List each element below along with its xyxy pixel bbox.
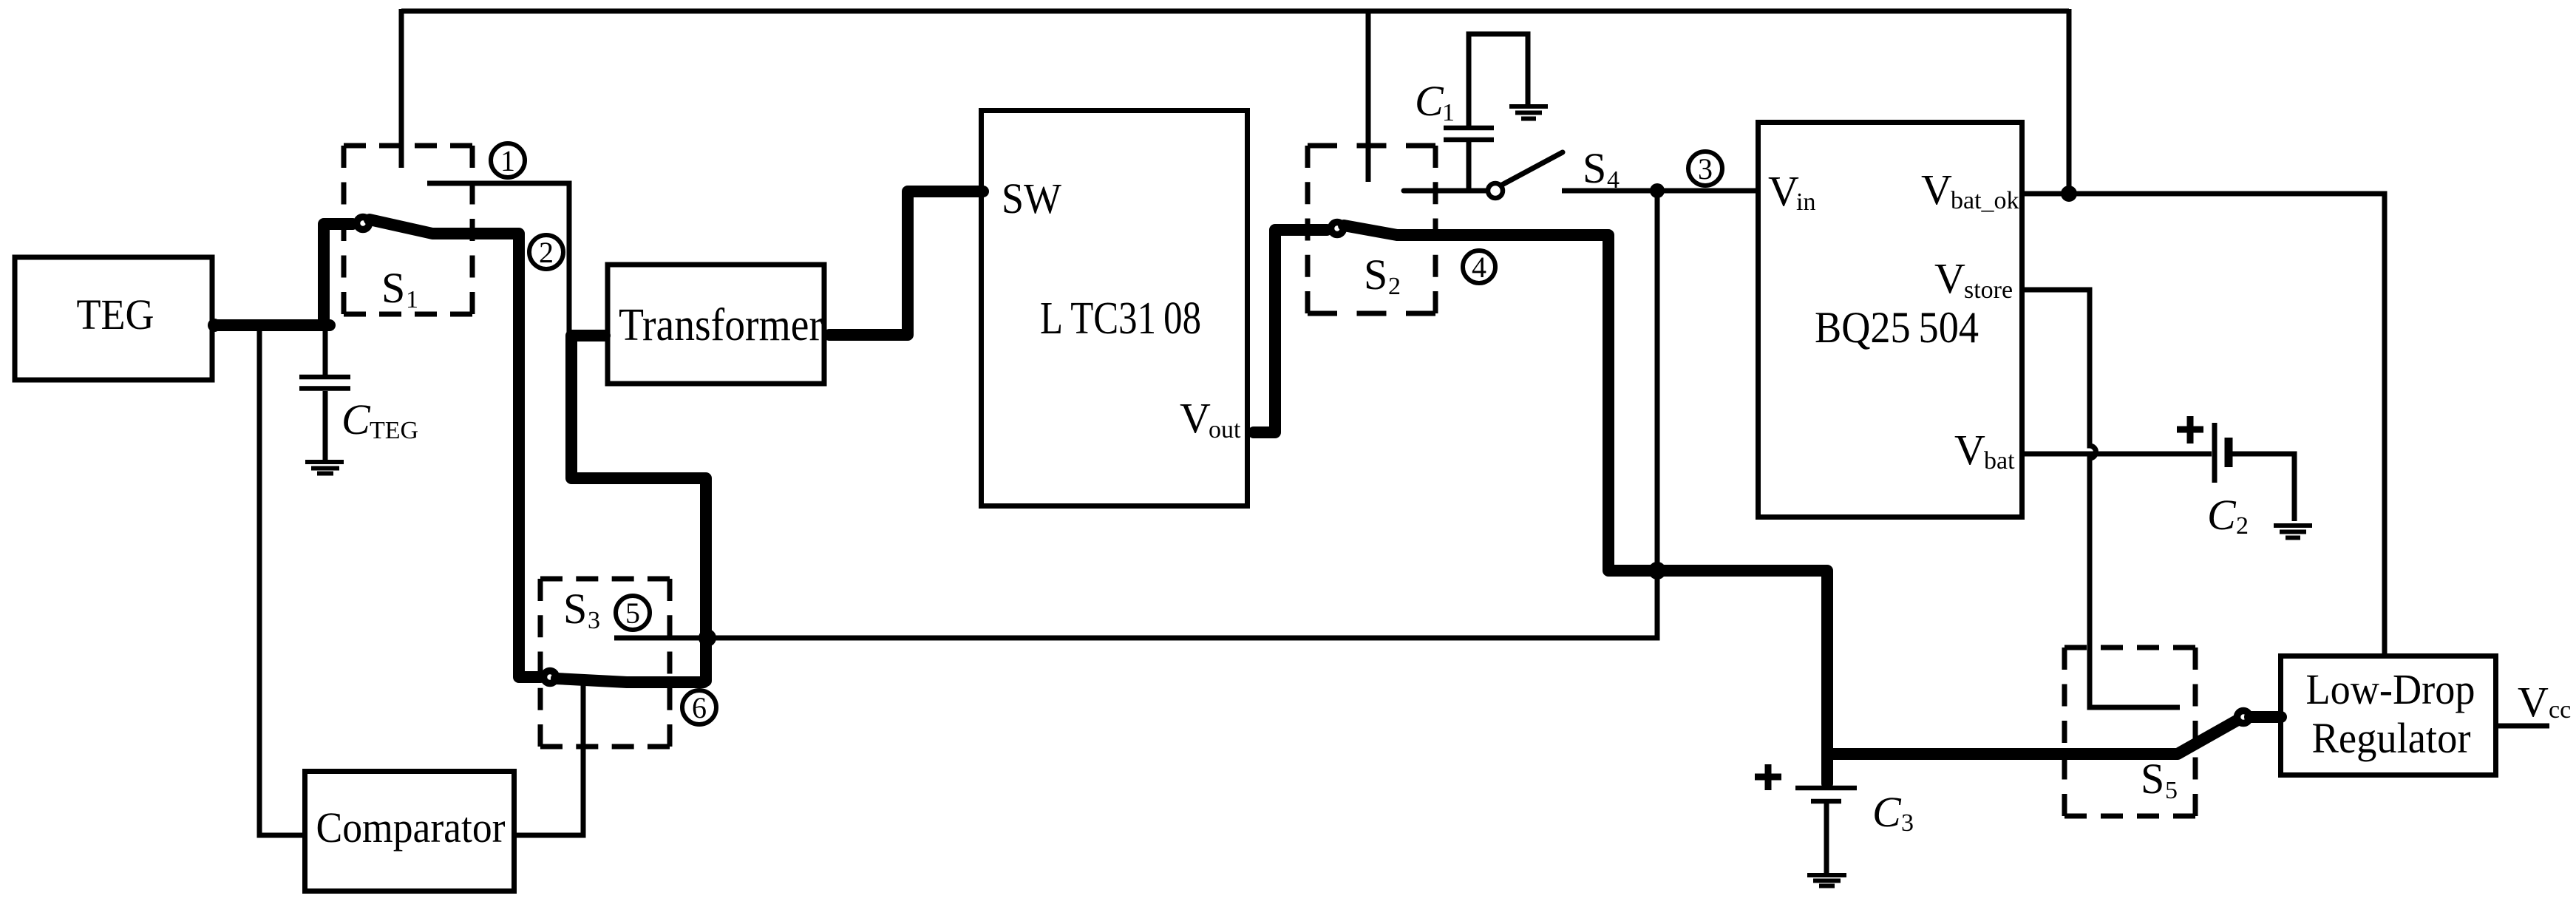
wire TEG node to comparator input bbox=[259, 325, 302, 835]
capacitor C1 bbox=[1444, 34, 1528, 191]
IC LTC3108 box bbox=[982, 111, 1248, 506]
svg-text:Transformer: Transformer bbox=[619, 300, 823, 350]
svg-text:C: C bbox=[1872, 788, 1902, 836]
wire transformer output to SW (thick) bbox=[829, 191, 983, 335]
svg-text:S: S bbox=[2141, 755, 2164, 803]
wire top net drop to Vbat_ok bbox=[2067, 9, 2072, 194]
switch S1 blade + wire to node 2 (thick) bbox=[370, 220, 540, 677]
switch S4 left contact line bbox=[1404, 188, 1487, 194]
svg-text:2: 2 bbox=[539, 236, 554, 269]
wire S1 common (thick) bbox=[324, 224, 353, 325]
svg-text:store: store bbox=[1964, 276, 2013, 304]
node 4 (circled) bbox=[1463, 251, 1495, 284]
wire Vbat to battery C2 bbox=[2025, 452, 2212, 457]
battery C2 plates bbox=[2212, 423, 2218, 483]
node 3 (circled) bbox=[1688, 152, 1722, 186]
svg-text:C: C bbox=[1415, 77, 1444, 125]
regulator box bbox=[2281, 656, 2496, 775]
wire comparator output to S3 pivot bbox=[517, 679, 583, 835]
ground (C1) bbox=[1509, 106, 1548, 119]
wire TEG output (thick) bbox=[214, 319, 330, 331]
switch S5 blade (thick) bbox=[2178, 718, 2240, 754]
capacitor C3 bottom stem bbox=[1824, 803, 1829, 873]
ground (C3) bbox=[1807, 875, 1846, 886]
switch S4 pivot bbox=[1488, 183, 1503, 198]
svg-text:5: 5 bbox=[2165, 777, 2178, 804]
svg-text:V: V bbox=[1921, 166, 1952, 214]
svg-text:Regulator: Regulator bbox=[2312, 714, 2471, 762]
junction dot node5 x transformer net bbox=[699, 629, 716, 647]
wire S2 upper throw contact drop bbox=[1366, 9, 1371, 182]
svg-text:BQ25 504: BQ25 504 bbox=[1815, 303, 1979, 352]
svg-text:V: V bbox=[1934, 254, 1965, 302]
svg-text:V: V bbox=[2518, 678, 2549, 726]
svg-text:V: V bbox=[1768, 167, 1799, 215]
svg-text:2: 2 bbox=[1388, 273, 1401, 300]
junction dot node5 wire x thick net bbox=[1648, 562, 1666, 580]
svg-text:S: S bbox=[563, 585, 587, 633]
wire Vcc output bbox=[2498, 724, 2549, 729]
wire S1 upper throw contact drop bbox=[399, 9, 404, 168]
svg-text:V: V bbox=[1180, 394, 1211, 442]
svg-text:5: 5 bbox=[625, 597, 640, 630]
node 6 (circled) bbox=[682, 690, 716, 724]
svg-text:Low-Drop: Low-Drop bbox=[2306, 665, 2475, 713]
svg-text:L TC31 08: L TC31 08 bbox=[1040, 293, 1201, 344]
svg-text:TEG: TEG bbox=[77, 290, 154, 339]
svg-text:bat: bat bbox=[1984, 447, 2015, 475]
svg-text:1: 1 bbox=[406, 286, 418, 313]
svg-text:C: C bbox=[2207, 491, 2237, 539]
switch S2 pivot bbox=[1331, 222, 1344, 235]
node 5 (circled) bbox=[616, 596, 650, 630]
switch S2 blade + output net (thick) bbox=[1344, 225, 2176, 754]
wire node 1: S1 throw to transformer input bbox=[427, 183, 569, 333]
svg-text:out: out bbox=[1209, 416, 1241, 443]
svg-text:3: 3 bbox=[588, 607, 600, 634]
junction dot Vbat_ok x top net bbox=[2061, 186, 2077, 202]
svg-text:S: S bbox=[1583, 144, 1606, 192]
svg-text:TEG: TEG bbox=[370, 417, 418, 444]
wire S4 to Vin bbox=[1562, 188, 1756, 194]
ground (C2) bbox=[2274, 526, 2312, 538]
node 2 (circled) bbox=[529, 235, 563, 269]
wire transformer input net (thick) bbox=[571, 336, 706, 681]
capacitor C3 plates bbox=[1795, 786, 1857, 791]
svg-text:2: 2 bbox=[2236, 512, 2249, 540]
svg-text:S: S bbox=[1364, 251, 1387, 299]
switch S5 dashed box bbox=[2064, 648, 2195, 816]
switch S3 pivot bbox=[544, 671, 557, 684]
wire Vstore to S5 upper contact (with hop) bbox=[2025, 290, 2180, 707]
svg-text:SW: SW bbox=[1002, 174, 1061, 222]
switch S5 pivot bbox=[2237, 711, 2250, 724]
IC BQ25504 box bbox=[1758, 123, 2022, 517]
wire C2 to ground bbox=[2232, 454, 2294, 521]
junction TEG output bbox=[208, 319, 221, 332]
junction dot on S4 line bbox=[1650, 183, 1665, 198]
comparator box bbox=[305, 772, 514, 891]
wire Vout to S2 pivot (thick) bbox=[1254, 230, 1327, 432]
wire Vbat_ok to regulator top bbox=[2025, 194, 2385, 653]
battery C2 plus sign bbox=[2177, 416, 2203, 443]
switch S4 blade bbox=[1502, 152, 1563, 185]
capacitor C3 plus sign bbox=[1755, 764, 1781, 790]
svg-text:1: 1 bbox=[500, 144, 515, 177]
node 1 (circled) bbox=[491, 143, 525, 177]
svg-text:cc: cc bbox=[2549, 696, 2571, 724]
wire node 5 contact across to S4 junction bbox=[614, 191, 1657, 638]
wire top control net horizontal bbox=[401, 9, 2069, 14]
ground (C_TEG) bbox=[305, 462, 344, 474]
wire S5 pivot to regulator (thick) bbox=[2250, 711, 2281, 723]
svg-text:C: C bbox=[341, 395, 371, 443]
svg-text:6: 6 bbox=[692, 691, 707, 724]
svg-text:Comparator: Comparator bbox=[316, 803, 506, 852]
svg-text:bat_ok: bat_ok bbox=[1951, 187, 2019, 214]
switch S3 dashed box bbox=[540, 579, 670, 747]
switch S2 dashed box bbox=[1308, 146, 1435, 313]
svg-text:3: 3 bbox=[1901, 809, 1914, 837]
switch S1 dashed box bbox=[344, 146, 472, 314]
capacitor C_TEG bbox=[299, 328, 350, 460]
svg-text:4: 4 bbox=[1472, 251, 1486, 284]
svg-text:S: S bbox=[381, 264, 405, 312]
svg-text:V: V bbox=[1954, 426, 1985, 474]
transformer box bbox=[608, 265, 824, 384]
switch S3 blade (thick) bbox=[557, 679, 704, 682]
svg-text:3: 3 bbox=[1698, 152, 1713, 186]
TEG box bbox=[15, 257, 212, 380]
switch S1 pivot bbox=[357, 217, 370, 230]
svg-text:1: 1 bbox=[1442, 99, 1455, 126]
capacitor C3 thick stem bbox=[1821, 752, 1833, 784]
svg-text:in: in bbox=[1796, 188, 1815, 216]
